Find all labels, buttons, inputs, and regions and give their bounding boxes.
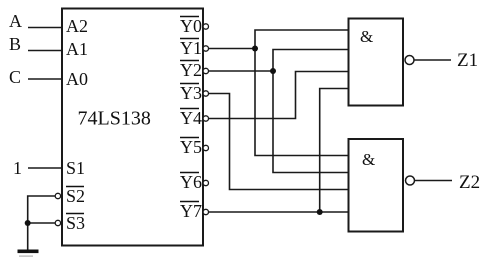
svg-text:A2: A2 [66,16,88,36]
wire Y7 to gate U3 input 4 [209,211,349,213]
svg-text:Z1: Z1 [457,50,478,71]
svg-text:A: A [9,11,22,31]
pin bubble Y6 [203,180,208,185]
ground symbol second bar [19,256,33,257]
ground symbol bar [18,250,39,254]
pin bubble Y0 [203,24,208,29]
NAND gate U2 body [349,19,404,106]
wire Y3 to gate U3 input 3 [209,94,349,190]
pin bubble Y4 [203,116,208,121]
pin bubble S2 [55,193,60,198]
output bubble U3 [406,176,415,185]
pin bubble Y5 [203,145,208,150]
wire Y2 riser to gate U2 input 2 and gate U3 input 2 [273,50,349,173]
svg-text:&: & [360,27,373,46]
overline Y1 [180,38,199,40]
svg-text:Z2: Z2 [459,172,480,193]
wire Y2 to node [209,70,274,72]
svg-text:74LS138: 74LS138 [78,108,151,130]
junction dot ground node [25,220,31,226]
wire input C to pin A0 [28,78,62,80]
overline Y0 [180,16,199,18]
svg-text:B: B [9,34,21,54]
overline Y4 [180,108,199,110]
wire Y4 to gate U2 input 3 [209,72,349,119]
output bubble U2 [405,56,414,65]
overline Y3 [180,83,199,85]
overline Y6 [180,172,199,174]
wire S2 to ground riser [28,196,56,250]
wire U3 output to Z2 [415,180,453,182]
wire Y7 riser to gate U2 input 4 [320,89,349,213]
pin bubble Y1 [203,46,208,51]
wire input A to pin A2 [28,27,62,29]
junction dot Y1 node [252,46,258,52]
svg-text:Y3: Y3 [180,83,202,103]
svg-text:Y5: Y5 [180,137,202,157]
wire Y1 riser to gate U2 input 1 and gate U3 input 1 [255,30,349,156]
wire Y1 to node [209,48,256,50]
IC U1 74LS138 body [62,9,203,246]
overline Y5 [180,137,199,139]
NAND gate U3 body [349,139,404,232]
svg-text:Y7: Y7 [180,201,202,221]
wire S3 to ground riser [28,222,56,224]
svg-text:A0: A0 [66,69,88,89]
overline S2 [66,186,84,188]
svg-text:S2: S2 [66,186,85,206]
svg-text:Y1: Y1 [180,38,202,58]
pin bubble Y3 [203,91,208,96]
wire input 1 to pin S1 [28,167,62,169]
pin bubble Y2 [203,68,208,73]
wire input B to pin A1 [28,50,62,52]
svg-text:Y0: Y0 [180,16,202,36]
wire U2 output to Z1 [414,59,451,61]
svg-text:Y4: Y4 [180,108,202,128]
pin bubble S3 [55,220,60,225]
svg-text:A1: A1 [66,39,88,59]
pin bubble Y7 [203,209,208,214]
junction dot Y2 node [270,68,276,74]
overline S3 [66,213,84,215]
svg-text:Y6: Y6 [180,172,202,192]
overline Y2 [180,60,199,62]
svg-text:Y2: Y2 [180,60,202,80]
svg-text:S3: S3 [66,213,85,233]
svg-text:&: & [362,150,375,169]
svg-text:C: C [9,67,21,87]
svg-text:1: 1 [13,158,22,178]
svg-text:S1: S1 [66,158,85,178]
junction dot Y7 node [317,209,323,215]
overline Y7 [180,201,199,203]
